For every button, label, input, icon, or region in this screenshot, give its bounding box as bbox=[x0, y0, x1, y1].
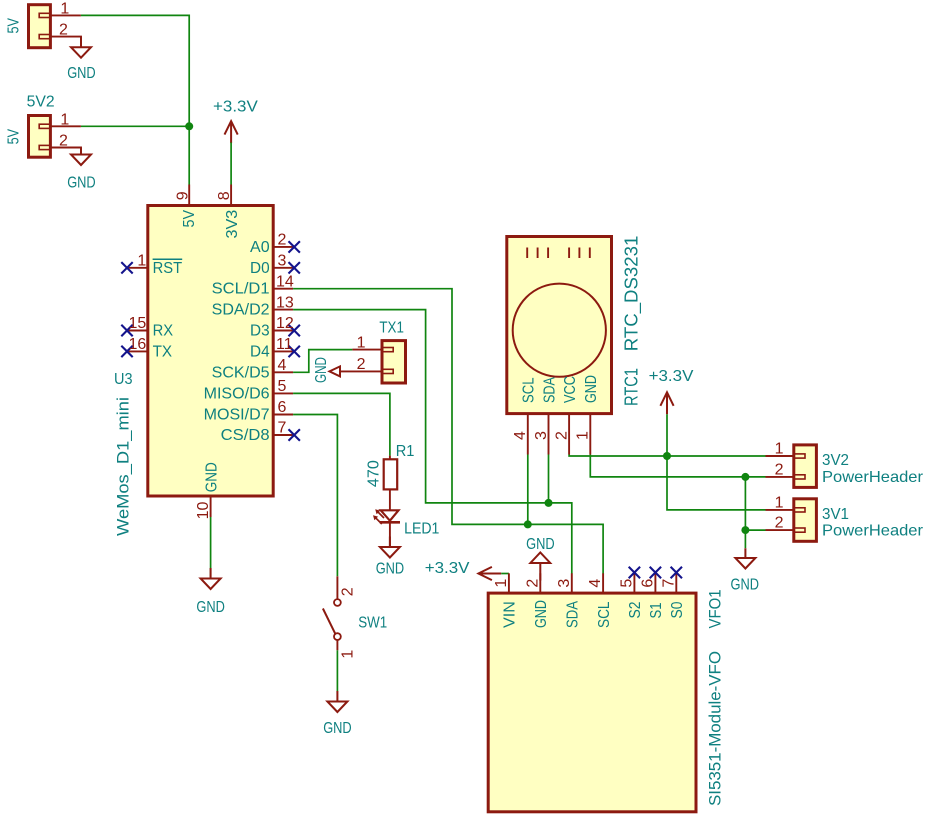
svg-text:5: 5 bbox=[618, 579, 635, 588]
svg-text:D0: D0 bbox=[250, 260, 270, 277]
junction SDA at RTC bbox=[545, 499, 553, 507]
svg-text:1: 1 bbox=[339, 650, 356, 659]
VFO1 pin 6 (S1) no-connect bbox=[639, 567, 665, 619]
svg-text:LED1: LED1 bbox=[404, 520, 439, 537]
ground symbol below 5V2 connector bbox=[67, 148, 96, 192]
U3 pin 14 (SCL/D1) bbox=[212, 273, 294, 297]
ground symbol below SW1 bbox=[323, 691, 352, 737]
TX1 pin 2 bbox=[340, 356, 382, 373]
junction +3.3V at 3V2 pin1 bbox=[663, 452, 671, 460]
ground symbol below U3 bbox=[196, 568, 225, 616]
svg-text:+3.3V: +3.3V bbox=[649, 368, 694, 385]
VFO1 pin 5 (S2) no-connect bbox=[618, 567, 644, 619]
svg-text:4: 4 bbox=[512, 431, 529, 440]
svg-text:RST: RST bbox=[153, 260, 183, 277]
power symbol +3.3V at Si5351 VIN bbox=[425, 560, 502, 580]
svg-text:3: 3 bbox=[556, 579, 573, 588]
U3 pin 16 (TX) no-connect bbox=[121, 336, 172, 361]
ground symbol at Si5351 GND pin (pointing up) bbox=[526, 536, 555, 581]
module VFO1 Si5351-Module-VFO body bbox=[488, 590, 724, 812]
svg-text:5V: 5V bbox=[6, 18, 23, 34]
3V1 pin 2 bbox=[766, 515, 794, 532]
resistor R1 bbox=[366, 443, 415, 510]
svg-text:12: 12 bbox=[276, 315, 294, 332]
wire SCL net U3 pin14 to Si5351 bbox=[293, 289, 603, 574]
wire SW1 to ground bbox=[336, 650, 338, 691]
svg-text:SCL: SCL bbox=[596, 601, 613, 628]
J1 pin 1 bbox=[50, 1, 81, 18]
RTC1 pin 3 (SDA) bbox=[533, 377, 558, 455]
svg-text:TX1: TX1 bbox=[379, 319, 404, 336]
wire RTC GND to header net bbox=[590, 455, 765, 477]
U3 pin 10 (GND) bbox=[195, 496, 212, 519]
connector TX1 bbox=[379, 319, 405, 383]
wire 5V net vertical bbox=[81, 15, 189, 184]
svg-text:SW1: SW1 bbox=[358, 614, 387, 631]
ground symbol left of TX1 bbox=[313, 357, 340, 383]
svg-text:CS/D8: CS/D8 bbox=[221, 427, 270, 444]
svg-text:2: 2 bbox=[278, 232, 287, 249]
U3 pin 6 (MOSI/D7) bbox=[204, 399, 294, 423]
wire SDA net U3 pin13 to Si5351 bbox=[293, 310, 572, 574]
U3 pin 5 (MISO/D6) bbox=[204, 378, 294, 402]
svg-text:S1: S1 bbox=[648, 602, 665, 618]
junction SCL at RTC bbox=[524, 520, 532, 528]
svg-text:9: 9 bbox=[175, 191, 192, 200]
VFO1 pin 2 (GND) bbox=[524, 573, 550, 628]
svg-text:10: 10 bbox=[195, 501, 212, 519]
U3 pin 9 (5V) bbox=[175, 185, 192, 206]
svg-text:VCC: VCC bbox=[562, 376, 579, 403]
U3 pin 2 (A0) no-connect bbox=[250, 232, 300, 256]
svg-text:TX: TX bbox=[153, 343, 173, 360]
svg-text:GND: GND bbox=[376, 560, 405, 577]
U3 pin 3 (D0) no-connect bbox=[250, 253, 300, 277]
svg-text:S2: S2 bbox=[627, 601, 644, 618]
U3 pin 8 (3V3) bbox=[216, 185, 233, 206]
LED LED1 bbox=[373, 509, 439, 547]
svg-text:+3.3V: +3.3V bbox=[213, 99, 258, 116]
svg-text:D3: D3 bbox=[250, 323, 270, 340]
svg-text:5V2: 5V2 bbox=[27, 94, 55, 111]
svg-text:RTC_DS3231: RTC_DS3231 bbox=[622, 236, 643, 352]
svg-text:2: 2 bbox=[775, 461, 784, 478]
svg-text:GND: GND bbox=[731, 576, 760, 593]
connector J2 5V2 bbox=[6, 94, 55, 158]
svg-text:VFO1: VFO1 bbox=[706, 590, 725, 629]
svg-text:MISO/D6: MISO/D6 bbox=[204, 385, 270, 402]
svg-text:1: 1 bbox=[60, 1, 69, 18]
svg-text:14: 14 bbox=[276, 273, 294, 290]
svg-text:SCK/D5: SCK/D5 bbox=[212, 364, 270, 381]
svg-text:PowerHeader: PowerHeader bbox=[822, 523, 924, 540]
svg-text:+3.3V: +3.3V bbox=[425, 560, 470, 577]
svg-text:SDA/D2: SDA/D2 bbox=[212, 302, 270, 319]
svg-text:A0: A0 bbox=[250, 239, 270, 256]
svg-text:3V2: 3V2 bbox=[822, 452, 849, 469]
svg-text:GND: GND bbox=[67, 65, 96, 82]
3V1 pin 1 bbox=[766, 494, 794, 511]
wire U3 GND pin 10 down bbox=[210, 517, 212, 577]
svg-text:2: 2 bbox=[554, 431, 571, 440]
svg-text:470: 470 bbox=[366, 460, 383, 487]
svg-text:R1: R1 bbox=[396, 443, 415, 460]
svg-text:11: 11 bbox=[276, 336, 293, 353]
ground symbol below 5V connector bbox=[67, 37, 96, 83]
ground symbol below LED1 bbox=[376, 537, 405, 578]
svg-text:GND: GND bbox=[67, 174, 96, 191]
junction GND net at 3V1 pin2 bbox=[741, 526, 749, 534]
wire +3.3V to VIN bbox=[501, 573, 509, 575]
svg-text:D4: D4 bbox=[250, 343, 270, 360]
svg-text:13: 13 bbox=[276, 294, 294, 311]
connector 3V1 PowerHeader bbox=[794, 499, 924, 542]
ground symbol below headers bbox=[731, 548, 760, 593]
svg-text:SI5351-Module-VFO: SI5351-Module-VFO bbox=[706, 651, 725, 806]
svg-text:GND: GND bbox=[533, 600, 550, 628]
connector 3V2 PowerHeader bbox=[794, 445, 924, 488]
junction GND net at 3V2 pin2 bbox=[741, 473, 749, 481]
svg-text:3V3: 3V3 bbox=[224, 210, 241, 239]
svg-text:GND: GND bbox=[196, 599, 225, 616]
U3 pin 11 (D4) no-connect bbox=[250, 336, 300, 360]
svg-text:SCL: SCL bbox=[521, 377, 538, 403]
J2 pin 2 bbox=[50, 133, 81, 155]
svg-text:MOSI/D7: MOSI/D7 bbox=[204, 407, 270, 424]
U3 pin 7 (CS/D8) no-connect bbox=[221, 420, 300, 444]
RTC1 pin 1 (GND) bbox=[575, 375, 600, 455]
svg-text:1: 1 bbox=[775, 441, 784, 458]
svg-text:1: 1 bbox=[775, 494, 784, 511]
svg-text:5: 5 bbox=[278, 378, 287, 395]
module RTC1 RTC_DS3231 body bbox=[507, 236, 643, 414]
power symbol +3.3V at U3 pin 8 bbox=[213, 99, 258, 143]
switch SW1 bbox=[323, 576, 387, 658]
wire +3.3V right vertical bbox=[667, 414, 766, 510]
svg-text:1: 1 bbox=[357, 334, 366, 351]
wire +3.3V to U3 pin 8 bbox=[230, 143, 232, 185]
wire RTC SDA down bbox=[548, 455, 550, 503]
VFO1 pin 4 (SCL) bbox=[587, 573, 613, 628]
RTC1 pin 2 (VCC) bbox=[554, 376, 579, 455]
wire U3 MISO/D6 to R1 bbox=[293, 393, 390, 455]
wire U3 MOSI/D7 to SW1 bbox=[293, 415, 337, 577]
svg-text:SDA: SDA bbox=[565, 601, 582, 628]
wire U3 SCK/D5 to TX1 pin 1 bbox=[293, 350, 352, 373]
wire GND net vertical at headers bbox=[744, 477, 746, 548]
svg-text:1: 1 bbox=[493, 579, 510, 588]
svg-text:RX: RX bbox=[153, 323, 174, 340]
svg-text:1: 1 bbox=[60, 111, 69, 128]
U3 pin 15 (RX) no-connect bbox=[121, 315, 173, 340]
wire 3V1 pin 2 bbox=[745, 529, 765, 531]
power symbol +3.3V right bbox=[649, 368, 694, 414]
junction 5V net bbox=[185, 122, 193, 130]
svg-text:PowerHeader: PowerHeader bbox=[822, 469, 924, 486]
U3 pin 1 (RST) no-connect bbox=[121, 252, 182, 277]
svg-text:RTC1: RTC1 bbox=[622, 368, 642, 406]
svg-text:SDA: SDA bbox=[541, 377, 558, 403]
svg-text:GND: GND bbox=[323, 720, 352, 737]
svg-text:3: 3 bbox=[533, 431, 550, 440]
svg-text:5V: 5V bbox=[6, 129, 23, 145]
VFO1 pin 1 (VIN) bbox=[493, 573, 519, 628]
svg-text:6: 6 bbox=[639, 579, 656, 588]
svg-text:SCL/D1: SCL/D1 bbox=[212, 281, 270, 298]
svg-text:3: 3 bbox=[278, 253, 287, 270]
wire RTC SCL down bbox=[527, 455, 529, 525]
svg-text:S0: S0 bbox=[669, 601, 686, 618]
svg-text:1: 1 bbox=[575, 431, 592, 440]
svg-text:4: 4 bbox=[587, 579, 604, 588]
TX1 pin 1 bbox=[352, 334, 382, 351]
IC U3 WeMos_D1_mini body bbox=[114, 206, 274, 537]
svg-text:2: 2 bbox=[357, 356, 366, 373]
svg-text:U3: U3 bbox=[114, 371, 133, 388]
svg-text:2: 2 bbox=[524, 579, 541, 588]
U3 pin 12 (D3) no-connect bbox=[250, 315, 300, 339]
connector J1 5V bbox=[6, 5, 51, 48]
svg-text:2: 2 bbox=[59, 22, 68, 39]
svg-text:5V: 5V bbox=[181, 210, 198, 228]
svg-text:8: 8 bbox=[216, 191, 233, 200]
svg-text:GND: GND bbox=[313, 357, 330, 383]
U3 pin 13 (SDA/D2) bbox=[212, 294, 294, 318]
svg-text:15: 15 bbox=[129, 315, 147, 332]
svg-text:2: 2 bbox=[775, 515, 784, 532]
U3 pin 4 (SCK/D5) bbox=[212, 357, 294, 381]
wire 5V2 pin1 to node bbox=[81, 125, 189, 127]
svg-text:7: 7 bbox=[278, 420, 287, 437]
svg-text:GND: GND bbox=[203, 462, 220, 492]
svg-text:7: 7 bbox=[660, 579, 677, 588]
svg-text:2: 2 bbox=[59, 133, 68, 150]
J2 pin 1 bbox=[50, 111, 81, 128]
J1 pin 2 bbox=[50, 22, 81, 48]
svg-text:6: 6 bbox=[278, 399, 287, 416]
VFO1 pin 3 (SDA) bbox=[556, 573, 582, 628]
RTC1 pin 4 (SCL) bbox=[512, 377, 537, 454]
svg-text:GND: GND bbox=[526, 536, 555, 553]
svg-text:1: 1 bbox=[137, 252, 146, 269]
svg-text:WeMos_D1_mini: WeMos_D1_mini bbox=[114, 397, 133, 536]
svg-text:2: 2 bbox=[339, 587, 356, 596]
3V2 pin 1 bbox=[766, 441, 794, 458]
svg-text:4: 4 bbox=[278, 357, 287, 374]
svg-text:VIN: VIN bbox=[502, 601, 519, 628]
VFO1 pin 7 (S0) no-connect bbox=[660, 567, 686, 619]
svg-text:GND: GND bbox=[583, 375, 600, 403]
3V2 pin 2 bbox=[766, 461, 794, 478]
svg-text:16: 16 bbox=[129, 336, 147, 353]
wire RTC VCC to +3.3V net bbox=[569, 455, 765, 457]
svg-text:3V1: 3V1 bbox=[822, 506, 849, 523]
